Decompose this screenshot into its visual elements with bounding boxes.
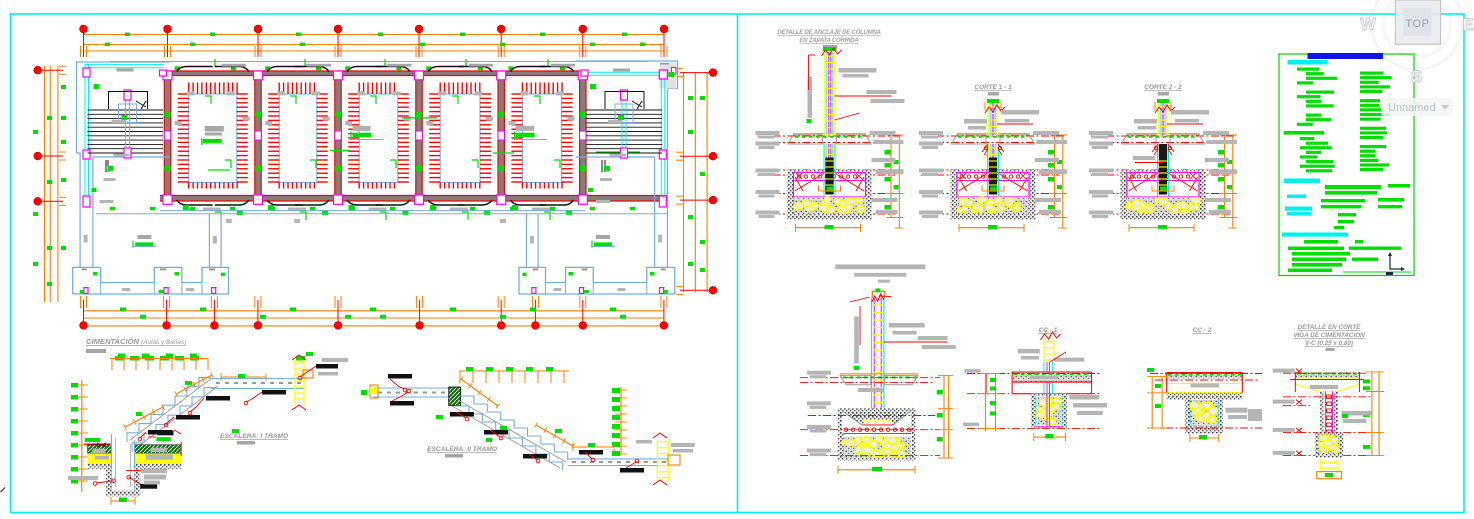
svg-text:V-C (0.25 x 0.80): V-C (0.25 x 0.80): [1305, 340, 1353, 347]
svg-text:EN ZAPATA CORRIDA: EN ZAPATA CORRIDA: [799, 38, 858, 44]
svg-text:CIMENTACIÓN (Aulas y Baños): CIMENTACIÓN (Aulas y Baños): [86, 337, 186, 346]
svg-text:ESCALERA: I TRAMO: ESCALERA: I TRAMO: [220, 433, 289, 440]
svg-text:TOP: TOP: [1405, 18, 1429, 30]
svg-text:E: E: [1462, 16, 1473, 34]
svg-text:CC - 2: CC - 2: [1193, 327, 1212, 334]
svg-text:CORTE 1 - 1: CORTE 1 - 1: [974, 84, 1012, 91]
svg-text:ESCALERA: II TRAMO: ESCALERA: II TRAMO: [427, 446, 498, 453]
svg-text:S: S: [1411, 68, 1422, 86]
svg-text:DETALLE EN CORTE: DETALLE EN CORTE: [1298, 324, 1362, 331]
svg-text:DETALLE DE ANCLAJE DE COLUMNA: DETALLE DE ANCLAJE DE COLUMNA: [777, 30, 881, 36]
svg-text:CC - 1: CC - 1: [1039, 327, 1058, 334]
svg-text:Unnamed: Unnamed: [1388, 102, 1436, 114]
svg-text:CORTE 2 - 2: CORTE 2 - 2: [1144, 84, 1182, 91]
svg-text:W: W: [1360, 16, 1376, 34]
svg-text:VIGA DE CIMENTACION: VIGA DE CIMENTACION: [1293, 332, 1365, 339]
